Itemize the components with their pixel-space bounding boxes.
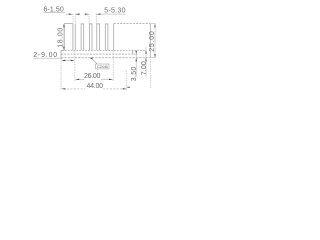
svg-text:6-1.50: 6-1.50 xyxy=(44,6,64,13)
svg-text:C2X45: C2X45 xyxy=(97,64,109,69)
svg-text:44.00: 44.00 xyxy=(87,83,104,90)
svg-text:18.00: 18.00 xyxy=(57,28,64,48)
svg-text:2-9.00: 2-9.00 xyxy=(33,52,57,59)
svg-text:26.00: 26.00 xyxy=(84,73,100,80)
svg-text:7.00: 7.00 xyxy=(141,61,148,75)
svg-text:3.50: 3.50 xyxy=(131,67,138,82)
svg-text:5-5.30: 5-5.30 xyxy=(104,8,125,15)
svg-text:25.00: 25.00 xyxy=(149,31,156,52)
